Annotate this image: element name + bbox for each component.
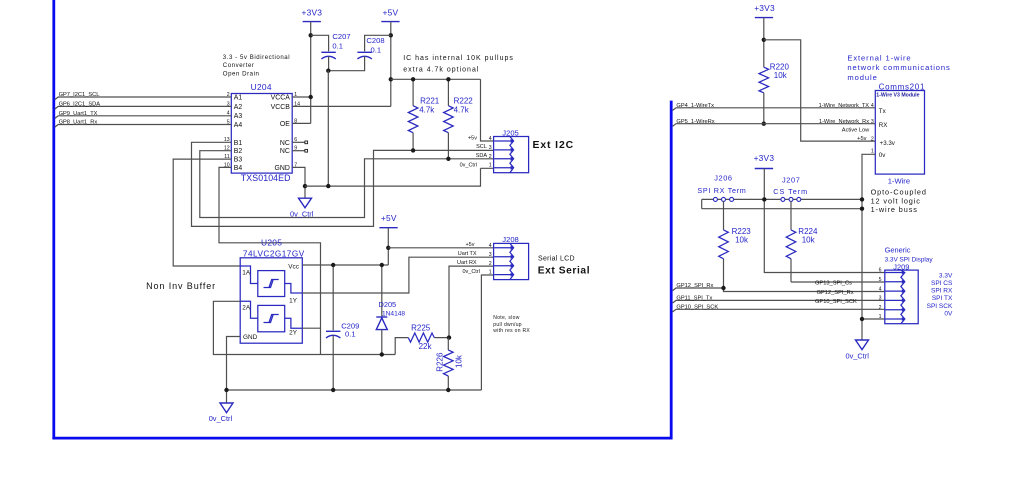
svg-text:0.1: 0.1 — [345, 330, 356, 339]
svg-text:0.1: 0.1 — [371, 46, 382, 55]
wire U205 Vcc — [302, 264, 388, 266]
J205 pin numbers — [489, 136, 492, 169]
node GP9_Uart1_TX — [55, 111, 232, 119]
wire J205 +5v drop — [481, 79, 494, 141]
svg-text:1N4148: 1N4148 — [382, 310, 405, 317]
note text 3.3-5v Bidirectional Converter Open Drain — [223, 54, 290, 78]
node junction C208 tap — [389, 33, 393, 37]
wire +5V stem to VCCB — [390, 22, 392, 107]
svg-text:Active Low: Active Low — [842, 128, 870, 134]
svg-text:Generic: Generic — [885, 246, 911, 255]
svg-text:+3V3: +3V3 — [754, 3, 775, 13]
svg-text:3: 3 — [489, 145, 492, 151]
svg-text:VCCA: VCCA — [271, 94, 291, 101]
Comms201 pin numbers — [871, 103, 874, 154]
U205 body — [240, 258, 302, 343]
J209 pin labels — [927, 272, 953, 317]
wire 3V3 stem to J209 pin6 — [764, 169, 885, 273]
note text Opto-Coupled — [871, 188, 927, 215]
resistor R224 — [786, 201, 818, 282]
J208 pin labels — [457, 242, 480, 275]
node junction R221 top — [411, 77, 415, 81]
svg-text:+5V: +5V — [383, 7, 399, 17]
svg-text:R221: R221 — [420, 97, 440, 106]
svg-text:3.3V: 3.3V — [939, 272, 953, 279]
svg-text:0v_Ctrl: 0v_Ctrl — [462, 269, 479, 275]
svg-text:U204: U204 — [251, 82, 272, 92]
IC U204 body TXS0104ED — [231, 94, 292, 174]
svg-text:2A: 2A — [242, 305, 251, 312]
svg-text:SPI RX: SPI RX — [931, 287, 953, 294]
connector J205 — [494, 128, 529, 172]
node GP4_1-WireTx — [673, 103, 876, 111]
node junction VCCA — [309, 95, 313, 99]
connector J207 jumper — [773, 176, 808, 202]
node GP8_Uart1_Rx — [55, 120, 232, 128]
svg-text:A3: A3 — [234, 113, 243, 120]
svg-text:GP4_1-WireTx: GP4_1-WireTx — [676, 103, 714, 109]
power +3V3 right top — [754, 3, 775, 17]
svg-text:VCCB: VCCB — [271, 104, 291, 111]
svg-text:2: 2 — [879, 305, 882, 311]
node junction row2 0v — [860, 207, 864, 211]
svg-text:+5v: +5v — [465, 242, 474, 248]
wire 1Y to J208 TX pin3 — [302, 257, 493, 293]
svg-text:3: 3 — [489, 252, 492, 258]
svg-text:GP9_Uart1_TX: GP9_Uart1_TX — [59, 111, 98, 117]
svg-text:74LVC2G17GV: 74LVC2G17GV — [243, 250, 305, 259]
svg-text:2: 2 — [489, 261, 492, 267]
resistor R222 — [444, 79, 474, 159]
svg-text:Non Inv Buffer: Non Inv Buffer — [146, 281, 216, 291]
svg-text:4.7k: 4.7k — [454, 105, 470, 114]
capacitor C209 — [326, 265, 359, 390]
node junction R222 bottom SDA — [446, 157, 450, 161]
node junction caps ground — [326, 69, 330, 73]
node junction C209 top — [331, 263, 335, 267]
wire jumper rows link — [701, 199, 703, 208]
wire +5v feed to Comms pin2 — [764, 40, 876, 141]
wire VCCB — [292, 105, 391, 107]
wire B3 to U205 1A — [173, 159, 240, 266]
svg-text:2: 2 — [871, 136, 874, 142]
svg-text:SPI SCK: SPI SCK — [927, 303, 953, 310]
node junction R225/R226/RX — [447, 335, 451, 339]
svg-text:module: module — [847, 73, 877, 82]
svg-text:10k: 10k — [802, 236, 816, 245]
svg-text:4.7k: 4.7k — [419, 105, 435, 114]
svg-text:R222: R222 — [454, 97, 474, 106]
svg-text:1-Wire V3 Module: 1-Wire V3 Module — [876, 93, 919, 99]
svg-text:SDA: SDA — [476, 153, 488, 159]
svg-text:Note, slow: Note, slow — [493, 315, 519, 321]
svg-text:SCL: SCL — [476, 144, 487, 150]
svg-text:J206: J206 — [714, 173, 732, 182]
node junction 3V3 row — [762, 197, 766, 201]
U205 pin names — [242, 263, 299, 341]
svg-text:1: 1 — [489, 270, 492, 276]
svg-text:C208: C208 — [366, 36, 384, 45]
svg-text:B3: B3 — [234, 157, 243, 164]
svg-text:3: 3 — [879, 296, 882, 302]
note text IC has internal pullups — [403, 55, 514, 73]
svg-text:+5v: +5v — [468, 135, 477, 141]
connector Comms201 — [875, 82, 925, 174]
svg-text:GP10_SPI_SCK: GP10_SPI_SCK — [676, 304, 718, 310]
svg-text:1-Wire: 1-Wire — [888, 177, 910, 186]
wire B4 to buffer node — [219, 167, 321, 354]
svg-text:J207: J207 — [782, 176, 800, 185]
note text slow pull — [493, 315, 530, 334]
svg-text:GP13_SPI_Cs: GP13_SPI_Cs — [815, 281, 852, 287]
wire SDA net J205 to B2 — [200, 151, 494, 218]
svg-text:GP7_I2C1_SCL: GP7_I2C1_SCL — [59, 92, 100, 98]
svg-text:B4: B4 — [234, 165, 243, 172]
svg-text:R220: R220 — [770, 63, 790, 72]
power +3V3 jumpers — [754, 153, 775, 169]
svg-text:+3V3: +3V3 — [754, 153, 775, 163]
svg-text:NC: NC — [280, 140, 290, 147]
svg-text:1: 1 — [879, 314, 882, 320]
wire U204 GND — [292, 167, 305, 198]
svg-text:0v_Ctrl: 0v_Ctrl — [460, 163, 477, 169]
U204 pin names — [234, 94, 290, 171]
wire +5V2 stem — [387, 228, 389, 265]
svg-text:Open Drain: Open Drain — [223, 71, 260, 78]
node junction R220 bottom — [762, 122, 766, 126]
svg-text:2Y: 2Y — [289, 330, 298, 337]
wire +5V rail — [391, 78, 481, 80]
wire jumper row top — [702, 198, 862, 200]
node junction D205 anode rail — [380, 352, 384, 356]
svg-text:+3.3v: +3.3v — [880, 140, 896, 147]
node GP10_SPI_SCK — [673, 304, 885, 312]
svg-text:0v_Ctrl: 0v_Ctrl — [209, 414, 233, 423]
svg-text:4: 4 — [489, 243, 492, 249]
svg-text:GP12_SPI_Rx: GP12_SPI_Rx — [817, 290, 854, 296]
svg-text:+5v: +5v — [857, 136, 866, 142]
J209 pin numbers — [879, 268, 882, 321]
node junction R220 top — [762, 38, 766, 42]
buffer 2 schmitt — [240, 301, 302, 332]
svg-text:3: 3 — [871, 119, 874, 125]
wire 3V3 stem — [763, 18, 765, 68]
wire J208 +5v pin4 — [388, 247, 493, 249]
svg-text:J208: J208 — [502, 235, 518, 244]
wire J208 0v pin1 — [481, 275, 493, 390]
wire 0v rail to J205 pin1 — [305, 168, 494, 186]
svg-text:A1: A1 — [234, 94, 243, 101]
resistor R223 — [719, 201, 752, 291]
svg-text:SPI CS: SPI CS — [931, 280, 953, 287]
wire jumper row bottom — [702, 208, 862, 210]
node junction caps leg on rail — [326, 184, 330, 188]
wire J208 RX pin2 to R225 — [449, 266, 494, 338]
frame right border — [670, 101, 673, 440]
node junction C209 bottom — [331, 388, 335, 392]
node junction gnd rail — [303, 184, 307, 188]
svg-text:C207: C207 — [332, 32, 350, 41]
resistor R220 — [759, 63, 789, 124]
svg-text:SPI TX: SPI TX — [932, 295, 953, 302]
svg-text:Vcc: Vcc — [288, 263, 299, 270]
resistor R225 — [395, 323, 449, 354]
svg-text:Tx: Tx — [879, 108, 887, 115]
svg-text:+3V3: +3V3 — [302, 7, 323, 17]
wire 2Y stub — [302, 327, 320, 329]
wire 2A loop — [213, 301, 395, 354]
wire R224 to J209 pin5 — [791, 281, 885, 283]
svg-text:NC: NC — [280, 148, 290, 155]
node junction 0v pin1 — [860, 317, 864, 321]
U204 pin numbers — [224, 92, 300, 168]
svg-text:4: 4 — [879, 286, 882, 292]
svg-text:External 1-wire: External 1-wire — [847, 53, 911, 62]
node junction 5V J208 — [386, 246, 390, 250]
connector J206 jumper — [697, 173, 746, 201]
wire 0v to J209 pin1 — [862, 318, 885, 320]
node GP7_I2C1_SCL — [55, 92, 232, 100]
svg-text:1-wire buss: 1-wire buss — [871, 205, 918, 214]
power +5V serial — [379, 213, 397, 228]
svg-text:extra 4.7k optional: extra 4.7k optional — [403, 67, 479, 74]
svg-text:B2: B2 — [234, 148, 243, 155]
wire OE jog — [292, 122, 311, 124]
svg-text:GP10_SPI_SCK: GP10_SPI_SCK — [815, 299, 857, 305]
connector J208 — [494, 235, 529, 280]
svg-text:Uart TX: Uart TX — [458, 251, 477, 257]
node junction R221 bottom SCL — [411, 148, 415, 152]
diode D205 1N4148 — [376, 265, 405, 355]
wire Rx jog to J209 pin4 — [724, 288, 885, 292]
J205 pin labels — [460, 135, 488, 168]
ground 0v_Ctrl U204 — [290, 198, 314, 218]
svg-text:0v_Ctrl: 0v_Ctrl — [290, 209, 314, 218]
svg-text:TXS0104ED: TXS0104ED — [241, 173, 291, 183]
svg-text:1A: 1A — [242, 270, 251, 277]
svg-text:1Y: 1Y — [289, 298, 298, 305]
wire SCL net J205 to B1 — [192, 142, 494, 226]
wire +3V3 stem to OE — [310, 22, 312, 124]
svg-text:22k: 22k — [419, 342, 433, 351]
svg-text:12 volt logic: 12 volt logic — [871, 196, 921, 205]
power +3V3 — [302, 7, 323, 21]
svg-text:U205: U205 — [261, 238, 282, 248]
no-connect pin6 — [292, 141, 307, 144]
svg-text:GP5_1-WireRx: GP5_1-WireRx — [676, 119, 714, 125]
capacitor C208 — [328, 35, 391, 70]
node GP11_SPI_Tx — [673, 296, 885, 304]
node junction U205 gnd — [224, 388, 228, 392]
node junction D205 top — [380, 263, 384, 267]
node junction R226 bottom — [446, 388, 450, 392]
svg-text:0.1: 0.1 — [332, 42, 343, 51]
node junction row1 0v — [860, 197, 864, 201]
svg-text:GND: GND — [274, 165, 289, 172]
svg-text:5: 5 — [879, 277, 882, 283]
svg-text:GP6_I2C1_SDA: GP6_I2C1_SDA — [59, 102, 101, 108]
frame left border — [52, 0, 55, 439]
svg-text:3.3 - 5v Bidirectional: 3.3 - 5v Bidirectional — [223, 54, 290, 61]
capacitor C207 — [311, 32, 351, 71]
svg-text:GND: GND — [243, 334, 258, 341]
svg-text:R223: R223 — [732, 227, 752, 236]
node junction R223 bottom — [721, 286, 725, 290]
svg-text:B1: B1 — [234, 140, 243, 147]
svg-text:A4: A4 — [234, 122, 243, 129]
svg-text:0v_Ctrl: 0v_Ctrl — [846, 351, 870, 360]
ground 0v_Ctrl U205 — [209, 403, 233, 423]
svg-text:R225: R225 — [411, 323, 431, 332]
svg-text:+5V: +5V — [381, 213, 397, 223]
resistor R226 — [435, 338, 463, 390]
svg-text:GP11_SPI_Tx: GP11_SPI_Tx — [676, 296, 712, 302]
wire U205 GND — [227, 337, 241, 404]
svg-text:IC has internal 10K pullups: IC has internal 10K pullups — [403, 55, 514, 62]
power +5V — [381, 7, 399, 21]
svg-text:SPI RX Term: SPI RX Term — [697, 186, 746, 195]
node GP6_I2C1_SDA — [55, 102, 232, 110]
svg-text:1-Wire_Network_Rx: 1-Wire_Network_Rx — [819, 119, 869, 125]
svg-text:RX: RX — [879, 122, 888, 129]
svg-text:D205: D205 — [379, 300, 397, 309]
frame bottom border — [52, 437, 672, 440]
svg-text:0V: 0V — [944, 311, 953, 318]
node junction 5V rail — [389, 77, 393, 81]
svg-text:CS Term: CS Term — [773, 187, 808, 196]
Comms201 pin names — [879, 108, 896, 159]
node junction R222 top — [446, 77, 450, 81]
svg-text:Opto-Coupled: Opto-Coupled — [871, 188, 927, 197]
svg-text:OE: OE — [280, 121, 290, 128]
connector J209 — [885, 246, 934, 324]
svg-text:A2: A2 — [234, 104, 243, 111]
svg-text:Uart RX: Uart RX — [457, 260, 477, 266]
svg-text:10k: 10k — [735, 236, 749, 245]
svg-text:2: 2 — [489, 154, 492, 160]
svg-text:GP12_SPI_Rx: GP12_SPI_Rx — [676, 283, 713, 289]
svg-text:10k: 10k — [774, 71, 788, 80]
resistor R221 — [408, 79, 439, 150]
wire Comms201 0v down — [862, 154, 875, 340]
no-connect pin9 — [292, 149, 307, 152]
svg-text:Ext Serial: Ext Serial — [538, 266, 590, 277]
node junction 3V3/C207 — [309, 33, 313, 37]
wire bottom 0v rail — [227, 389, 482, 391]
node GP5_1-WireRx — [673, 119, 876, 127]
svg-text:4: 4 — [489, 136, 492, 142]
svg-text:6: 6 — [879, 268, 882, 274]
svg-text:network communications: network communications — [847, 63, 950, 72]
wire caps to 0v rail — [327, 71, 329, 186]
svg-text:1: 1 — [489, 163, 492, 169]
ground 0v_Ctrl right — [846, 340, 870, 360]
node GP12_SPI_Rx — [673, 283, 724, 291]
svg-text:Serial LCD: Serial LCD — [538, 256, 575, 263]
buffer 1 schmitt — [240, 266, 302, 297]
svg-text:4: 4 — [871, 103, 874, 109]
svg-text:1-Wire_Network_TX: 1-Wire_Network_TX — [819, 103, 870, 109]
svg-text:with res on RX: with res on RX — [493, 328, 530, 334]
svg-text:GP8_Uart1_Rx: GP8_Uart1_Rx — [59, 120, 98, 126]
svg-text:0v: 0v — [879, 152, 886, 159]
svg-text:10k: 10k — [455, 354, 464, 368]
note text External 1-wire module — [847, 53, 950, 82]
svg-text:R224: R224 — [798, 227, 818, 236]
svg-text:Ext I2C: Ext I2C — [533, 140, 575, 151]
wire VCCA stub — [292, 96, 311, 98]
svg-text:Converter: Converter — [223, 62, 255, 69]
svg-text:R226: R226 — [435, 352, 444, 372]
J208 pin numbers — [489, 243, 492, 276]
